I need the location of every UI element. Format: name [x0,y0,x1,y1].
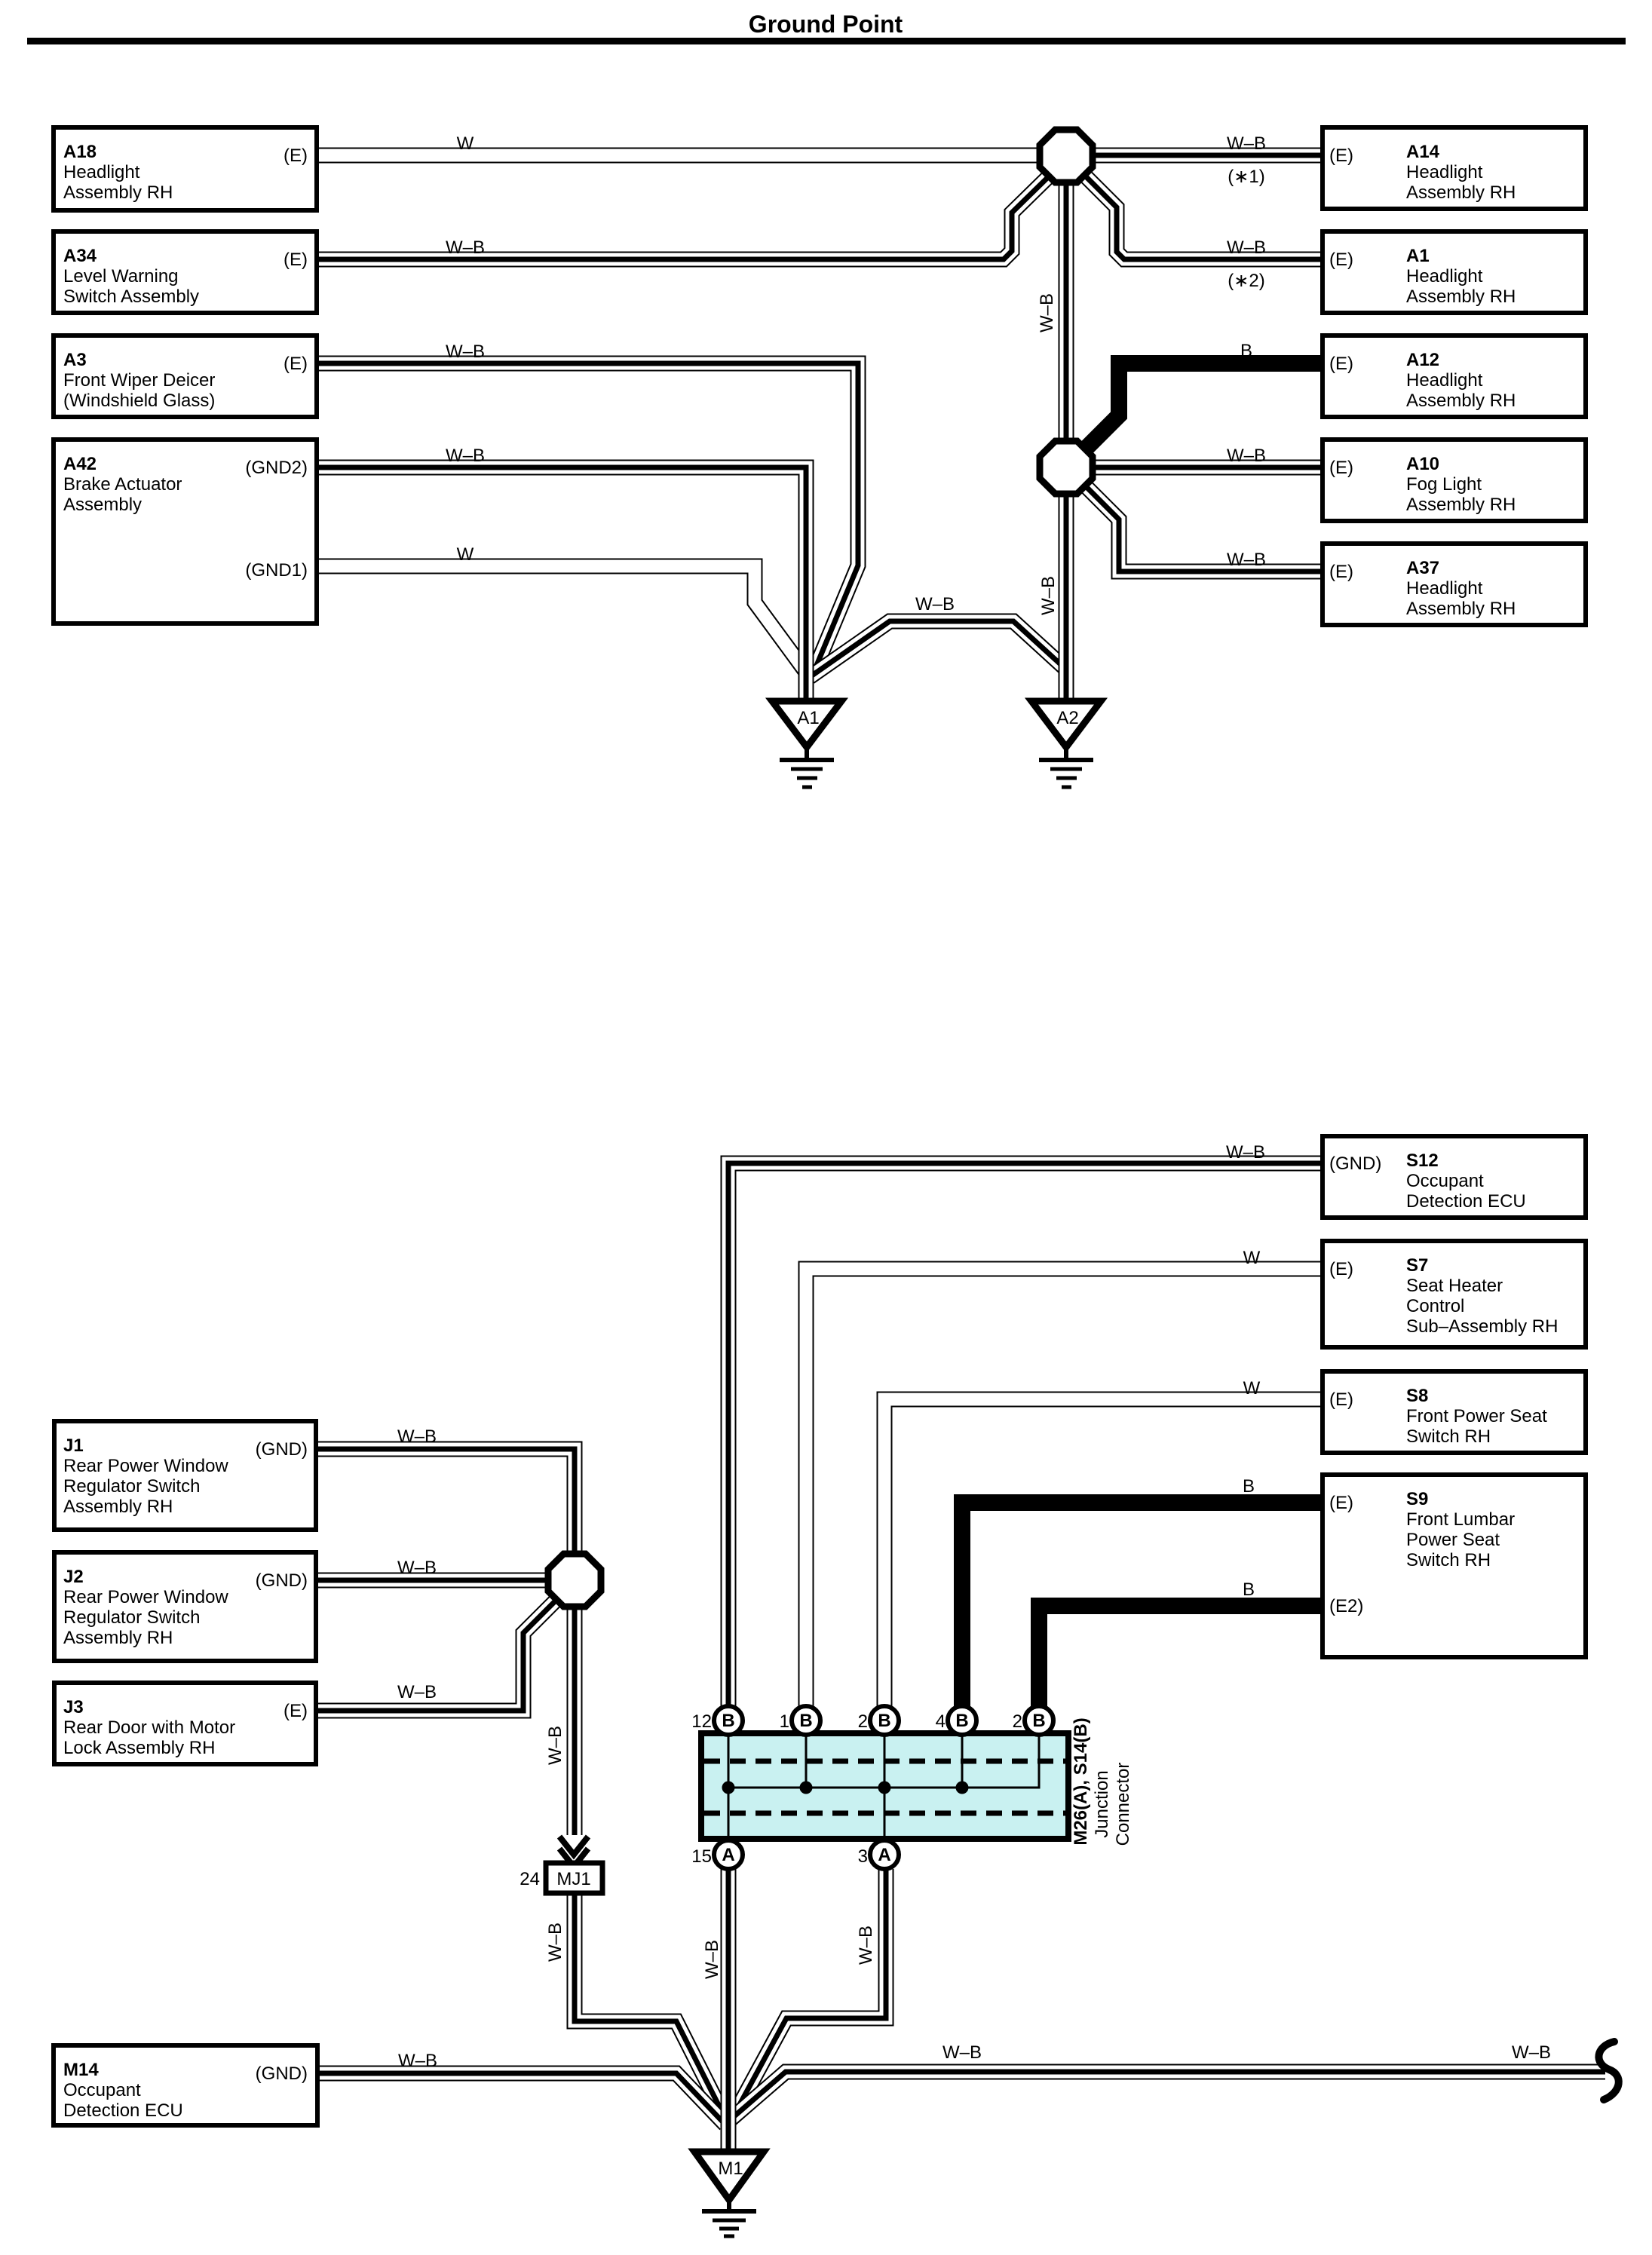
box A18 Headlight Assembly RH [54,127,317,210]
svg-text:Switch RH: Switch RH [1406,1550,1491,1570]
svg-text:1: 1 [780,1711,789,1732]
svg-text:Power Seat: Power Seat [1406,1530,1500,1550]
pin 3 A [858,1840,899,1869]
svg-text:(GND): (GND) [256,1439,308,1460]
svg-text:W–B: W–B [398,2051,437,2071]
box J1 Rear Power Window Regulator Switch Assembly RH [54,1421,316,1530]
svg-text:2: 2 [1013,1711,1022,1732]
svg-text:W–B: W–B [545,1923,565,1962]
svg-text:W–B: W–B [702,1940,722,1979]
svg-text:A18: A18 [63,142,97,162]
svg-text:W–B: W–B [397,1558,437,1578]
pin 2 B right [1013,1706,1053,1735]
svg-text:W–B: W–B [446,237,485,258]
svg-text:(E): (E) [1329,1389,1353,1410]
svg-text:Fog Light: Fog Light [1406,474,1482,495]
svg-text:Headlight: Headlight [1406,266,1483,286]
svg-text:W–B: W–B [1227,133,1266,154]
svg-text:Junction: Junction [1092,1770,1112,1837]
svg-text:(E): (E) [284,146,308,166]
svg-text:(E): (E) [284,250,308,270]
box J3 Rear Door with Motor Lock Assembly RH [54,1683,316,1764]
svg-text:15: 15 [691,1846,712,1867]
svg-text:W–B: W–B [1226,1142,1265,1163]
box S12 Occupant Detection ECU [1323,1136,1586,1218]
svg-text:A14: A14 [1406,142,1440,162]
svg-text:(E): (E) [284,354,308,374]
box S8 Front Power Seat Switch RH [1323,1371,1586,1453]
pin 4 B [936,1706,976,1735]
wire W-B pin 15A to ground M1 [721,1869,737,2149]
box A1 Headlight Assembly RH [1323,231,1586,313]
svg-text:W–B: W–B [856,1926,876,1965]
svg-text:W–B: W–B [1038,576,1059,615]
svg-text:(GND1): (GND1) [245,560,308,581]
svg-text:Occupant: Occupant [1406,1171,1484,1191]
box S7 Seat Heater Control Sub-Assembly RH [1323,1241,1586,1347]
svg-text:Front Power Seat: Front Power Seat [1406,1406,1547,1426]
svg-text:Switch RH: Switch RH [1406,1426,1491,1447]
svg-text:Front Wiper Deicer: Front Wiper Deicer [63,370,215,391]
pin 2 B [858,1706,899,1735]
box A34 Level Warning Switch Assembly [54,231,317,313]
junction octagon3 [548,1554,601,1607]
wire W-B A3 to ground A1 [317,363,858,676]
svg-text:Switch Assembly: Switch Assembly [63,286,199,307]
svg-text:W–B: W–B [446,446,485,466]
svg-text:W–B: W–B [397,1426,437,1447]
wire W-B MJ1 down to ground M1 [575,1893,726,2120]
svg-text:Rear Power Window: Rear Power Window [63,1587,228,1607]
svg-text:W–B: W–B [1227,446,1266,466]
wire B junction2 to A12 box [1085,363,1323,449]
svg-text:Lock Assembly RH: Lock Assembly RH [63,1738,215,1758]
svg-text:(GND): (GND) [256,2064,308,2084]
svg-text:(Windshield Glass): (Windshield Glass) [63,391,215,411]
ground A2 [1031,701,1101,787]
svg-text:Assembly RH: Assembly RH [1406,495,1516,515]
svg-text:(E): (E) [1329,458,1353,478]
svg-text:Assembly RH: Assembly RH [63,1628,173,1648]
break symbol right [1598,2042,1618,2100]
wire W-B junction2 to A10 box [1093,460,1323,476]
wire W-B junction to A1 box [1085,176,1323,259]
svg-text:W–B: W–B [1037,293,1057,332]
svg-text:Detection ECU: Detection ECU [63,2100,183,2121]
svg-text:MJ1: MJ1 [556,1869,590,1889]
wire W-B vertical between junctions [1059,182,1074,439]
wire W-B junction2 to A37 box [1085,486,1323,571]
box A42 Brake Actuator Assembly [54,440,317,623]
svg-text:(E2): (E2) [1329,1596,1363,1616]
box A10 Fog Light Assembly RH [1323,440,1586,521]
svg-text:B: B [878,1711,890,1731]
svg-text:Headlight: Headlight [1406,370,1483,391]
svg-text:A37: A37 [1406,558,1439,578]
svg-text:W–B: W–B [545,1726,565,1765]
wire W-B ground A1 to ground A2 [810,621,1065,677]
svg-text:S8: S8 [1406,1386,1428,1406]
wire W-B pin 3A to ground M1 [733,1869,886,2117]
svg-text:W–B: W–B [1227,237,1266,258]
svg-text:Connector: Connector [1113,1763,1133,1846]
svg-text:Headlight: Headlight [1406,162,1483,182]
wire W-B A42 GND2 to ground A1 [317,467,806,699]
svg-text:W: W [1243,1378,1261,1399]
svg-text:Detection ECU: Detection ECU [1406,1191,1526,1212]
pin 1 B [780,1706,820,1735]
box A3 Front Wiper Deicer [54,335,317,417]
junction octagon top1 [1040,130,1093,182]
svg-text:Rear Door with Motor: Rear Door with Motor [63,1717,235,1738]
svg-text:Sub–Assembly RH: Sub–Assembly RH [1406,1316,1558,1337]
svg-text:Seat Heater: Seat Heater [1406,1276,1503,1296]
wire W-B A34 to junction J/A [317,177,1048,259]
svg-text:A12: A12 [1406,350,1439,370]
svg-text:(∗2): (∗2) [1228,271,1264,291]
svg-text:Headlight: Headlight [1406,578,1483,599]
box A12 Headlight Assembly RH [1323,335,1586,417]
svg-text:(E): (E) [1329,1493,1353,1513]
svg-text:(GND): (GND) [1329,1154,1381,1174]
svg-text:Regulator Switch: Regulator Switch [63,1607,200,1628]
wire W-B J1 to junction octagon3 [317,1449,575,1554]
svg-text:Assembly RH: Assembly RH [1406,391,1516,411]
svg-text:Assembly RH: Assembly RH [63,1497,173,1517]
svg-text:A34: A34 [63,246,97,266]
wire B S9 E2 to pin 2B [1039,1606,1323,1706]
svg-text:W–B: W–B [915,594,955,614]
svg-text:Headlight: Headlight [63,162,140,182]
wire W-B ground M1 to right break [730,2072,1605,2120]
svg-text:Control: Control [1406,1296,1464,1316]
box S9 Front Lumbar Power Seat Switch RH [1323,1475,1586,1657]
wire W S7 to pin 1B [806,1269,1323,1706]
svg-text:Brake Actuator: Brake Actuator [63,474,182,495]
svg-text:A1: A1 [1406,246,1430,266]
svg-text:(E): (E) [1329,562,1353,582]
box MJ1 [546,1863,602,1893]
pin 15 A [691,1840,743,1869]
svg-text:B: B [1243,1476,1255,1497]
junction octagon top2 [1040,441,1093,494]
svg-text:Front Lumbar: Front Lumbar [1406,1509,1515,1530]
svg-text:Rear Power Window: Rear Power Window [63,1456,228,1476]
svg-text:Ground Point: Ground Point [749,11,903,38]
svg-text:(E): (E) [1329,1259,1353,1279]
wire W-B J3 to junction octagon3 [317,1601,556,1711]
title rule [27,38,1626,44]
wire W-B M14 to ground M1 [317,2073,725,2125]
svg-text:W: W [457,544,474,565]
svg-text:(E): (E) [1329,250,1353,270]
wire W-B S12 to pin 12B [728,1163,1323,1706]
svg-text:S9: S9 [1406,1489,1428,1509]
svg-text:B: B [799,1711,812,1731]
svg-text:J1: J1 [63,1435,84,1456]
svg-text:B: B [955,1711,968,1731]
wire W A42 GND1 to ground A1 [317,566,807,673]
svg-text:(GND2): (GND2) [245,458,308,478]
svg-text:M26(A), S14(B): M26(A), S14(B) [1071,1717,1091,1845]
svg-text:A: A [722,1845,734,1865]
box A14 Headlight Assembly RH [1323,127,1586,209]
svg-text:W–B: W–B [397,1682,437,1702]
svg-text:3: 3 [858,1846,868,1867]
svg-text:A10: A10 [1406,454,1439,474]
svg-text:B: B [1032,1711,1045,1731]
svg-text:A: A [878,1845,890,1865]
svg-text:Level Warning: Level Warning [63,266,179,286]
svg-text:W–B: W–B [446,342,485,362]
wire W-B J2 to junction octagon3 [317,1573,548,1589]
svg-text:M1: M1 [718,2158,743,2179]
ground M1 [694,2152,764,2236]
svg-text:A2: A2 [1056,708,1078,728]
svg-text:B: B [1243,1579,1255,1600]
svg-text:Assembly RH: Assembly RH [1406,286,1516,307]
svg-text:M14: M14 [63,2060,99,2080]
svg-text:S12: S12 [1406,1150,1439,1171]
svg-text:W: W [457,133,474,154]
svg-text:2: 2 [858,1711,868,1732]
svg-text:Assembly: Assembly [63,495,142,515]
box J2 Rear Power Window Regulator Switch Assembly RH [54,1552,316,1661]
connector arrow MJ1 [559,1837,588,1867]
pin 12 B [691,1706,743,1735]
svg-text:A3: A3 [63,350,87,370]
box A37 Headlight Assembly RH [1323,544,1586,625]
svg-text:A42: A42 [63,454,97,474]
svg-text:B: B [1240,341,1252,361]
box M14 Occupant Detection ECU [54,2045,317,2125]
svg-text:(GND): (GND) [256,1570,308,1591]
svg-text:Assembly RH: Assembly RH [63,182,173,203]
wire W-B junction to A14 box [1093,148,1323,164]
svg-text:(E): (E) [284,1701,308,1721]
svg-text:W: W [1243,1248,1261,1268]
svg-text:(E): (E) [1329,146,1353,166]
svg-text:24: 24 [520,1869,540,1889]
svg-text:W–B: W–B [942,2042,982,2063]
ground A1 [772,701,841,787]
svg-text:Assembly RH: Assembly RH [1406,599,1516,619]
svg-text:Assembly RH: Assembly RH [1406,182,1516,203]
svg-text:W–B: W–B [1227,550,1266,570]
svg-text:(E): (E) [1329,354,1353,374]
svg-text:12: 12 [691,1711,712,1732]
wire W-B octagon3 down to MJ1 [567,1607,583,1835]
wire B S9 E to pin 4B [962,1503,1323,1706]
wire W-B junction2 down to ground A2 [1059,496,1074,700]
svg-text:J2: J2 [63,1567,84,1587]
svg-text:A1: A1 [797,708,819,728]
svg-text:Regulator Switch: Regulator Switch [63,1476,200,1497]
wire W A18 to junction J/A [317,148,1040,164]
junction connector M26(A) S14(B) [701,1733,1068,1839]
svg-text:(∗1): (∗1) [1228,167,1264,187]
svg-text:S7: S7 [1406,1255,1428,1276]
svg-text:Occupant: Occupant [63,2080,141,2100]
svg-text:W–B: W–B [1512,2042,1551,2063]
svg-text:4: 4 [936,1711,946,1732]
svg-text:J3: J3 [63,1697,84,1717]
wire W S8 to pin 2B [884,1399,1323,1706]
svg-text:B: B [722,1711,734,1731]
